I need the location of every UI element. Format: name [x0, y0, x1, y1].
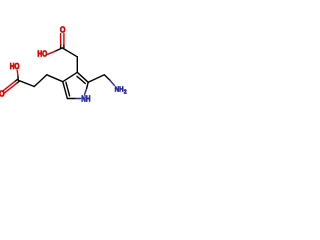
- label NH of pyrrole: [81, 94, 90, 104]
- bond C3-CH2 (acetic): [76, 57, 78, 73]
- svg-text:O: O: [60, 25, 66, 34]
- svg-text:HO: HO: [37, 49, 47, 59]
- bond C2ring-CH2 (aminomethyl): [88, 75, 104, 83]
- bond C2carb-OH (red half near HO): [16, 70, 19, 75]
- double bond C2carb=O2 lower line black half: [17, 81, 20, 83]
- pyrrole ring: bond N-C2 (black half): [87, 82, 89, 88]
- pyrrole ring: double bond C2=C3 inner: [77, 76, 85, 83]
- bond C1-OH (red half near HO): [48, 51, 56, 54]
- double bond C1=O1 right line red half: [63, 34, 65, 45]
- pyrrole ring: bond C5-N (blue half near N): [76, 98, 81, 100]
- bond CH2-CH2 (propionic): [34, 75, 47, 87]
- double bond C1=O1 left line black half: [60, 45, 62, 48]
- label NH2 amine: [115, 86, 124, 94]
- double bond C2carb=O2 lower line red half: [5, 83, 17, 92]
- svg-text:HO: HO: [10, 61, 20, 71]
- label HO of propionic acid: [10, 61, 20, 71]
- bond C4-CH2 (propionic): [47, 75, 63, 82]
- label O carbonyl of acetic acid: [60, 25, 66, 34]
- label HO of acetic acid: [37, 49, 47, 59]
- svg-text:2: 2: [124, 89, 127, 95]
- bond C2carb-OH (black half): [17, 75, 19, 80]
- bond C1-OH (black half): [55, 48, 62, 51]
- svg-text:NH: NH: [81, 94, 90, 104]
- double bond C2carb=O2 upper line black half: [15, 79, 18, 81]
- svg-text:O: O: [0, 89, 5, 98]
- label O carbonyl of propionic acid: [0, 89, 5, 98]
- pyrrole ring: bond N-C2 (blue half near N): [85, 89, 87, 95]
- bond CH2-C2carb: [18, 80, 34, 86]
- pyrrole ring: bond C5-N (black half): [67, 98, 75, 100]
- double bond C1=O1 right line black half: [63, 45, 65, 48]
- double bond C1=O1 left line red half: [60, 34, 62, 45]
- pyrrole ring: double bond C4=C5 outer: [63, 82, 68, 99]
- label NH2 subscript 2: [124, 89, 127, 95]
- pyrrole ring: double bond C2=C3 outer: [77, 72, 88, 82]
- pyrrole ring: double bond C4=C5 inner: [66, 82, 70, 96]
- svg-text:NH: NH: [115, 86, 124, 94]
- bond CH2-NH2 (black half): [104, 75, 110, 81]
- bond CH2-NH2 (blue half near N): [110, 80, 114, 85]
- bond CH2-C(=O)OH carboxyl carbon: [62, 48, 77, 57]
- double bond C2carb=O2 upper line red half: [3, 81, 15, 90]
- pyrrole ring: edge C3-C4: [63, 72, 78, 81]
